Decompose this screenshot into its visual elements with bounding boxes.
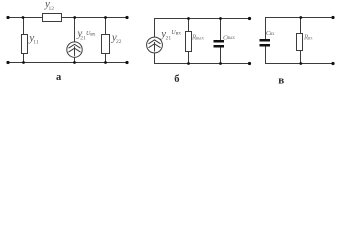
svg-text:12: 12 xyxy=(49,6,55,12)
svg-text:а: а xyxy=(56,72,62,83)
svg-text:11: 11 xyxy=(33,40,39,46)
svg-text:вх: вх xyxy=(90,31,96,37)
svg-text:вх: вх xyxy=(270,32,275,37)
svg-text:вых: вых xyxy=(227,36,235,41)
svg-text:21: 21 xyxy=(166,36,172,42)
svg-text:б: б xyxy=(174,74,179,85)
svg-text:вх: вх xyxy=(308,36,313,41)
svg-text:вых: вых xyxy=(196,36,205,41)
svg-text:в: в xyxy=(278,75,284,87)
svg-text:22: 22 xyxy=(116,39,122,45)
svg-text:вх: вх xyxy=(176,31,182,37)
